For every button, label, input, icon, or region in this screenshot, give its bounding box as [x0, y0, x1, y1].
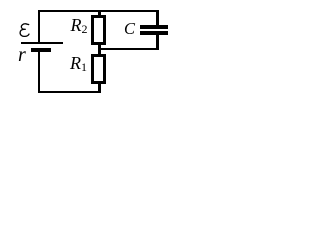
label R1: [70, 54, 87, 74]
battery cell EMF: long thin plate: [21, 42, 64, 44]
wire R1 bottom stub: [98, 84, 101, 91]
label EMF script-epsilon: [19, 23, 31, 38]
capacitor C top plate: [140, 25, 168, 29]
battery cell EMF: short thick plate: [31, 48, 52, 52]
wire bottom rail: [38, 91, 101, 93]
label r internal resistance: [18, 45, 26, 65]
resistor R2 box: [91, 15, 106, 45]
wire middle junction to capacitor: [98, 48, 158, 50]
resistor R1 box: [91, 54, 106, 84]
capacitor C bottom plate: [140, 31, 168, 35]
wire R1 top stub: [98, 50, 101, 54]
wire capacitor top riser: [156, 10, 159, 25]
wire R2 bottom stub: [98, 45, 101, 48]
label R2: [71, 16, 88, 36]
wire R2 top stub: [98, 12, 101, 15]
wire left rail upper: [38, 10, 40, 42]
wire top rail: [38, 10, 159, 12]
label C: [124, 21, 135, 38]
wire capacitor bottom riser: [156, 35, 159, 50]
wire left rail lower: [38, 52, 40, 94]
